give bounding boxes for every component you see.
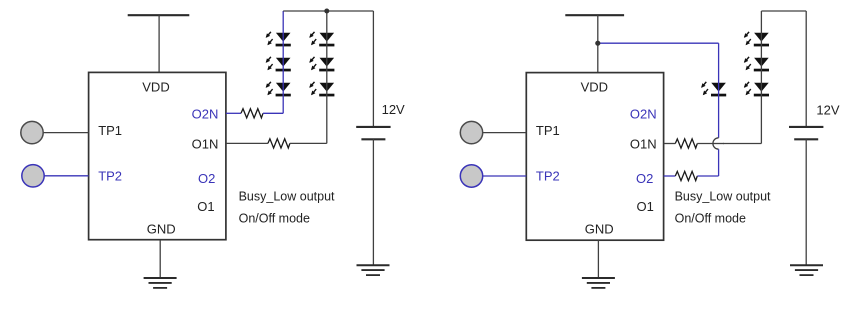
svg-text:Busy_Low output: Busy_Low output bbox=[675, 190, 771, 204]
svg-text:12V: 12V bbox=[816, 102, 839, 117]
svg-text:O2: O2 bbox=[198, 171, 215, 186]
svg-text:VDD: VDD bbox=[581, 80, 608, 95]
svg-text:GND: GND bbox=[147, 222, 176, 237]
svg-text:On/Off mode: On/Off mode bbox=[239, 211, 310, 225]
svg-text:GND: GND bbox=[585, 222, 614, 237]
svg-text:O2N: O2N bbox=[630, 106, 657, 121]
svg-text:TP2: TP2 bbox=[536, 169, 560, 184]
svg-text:12V: 12V bbox=[382, 102, 405, 117]
svg-text:TP1: TP1 bbox=[536, 123, 560, 138]
svg-text:On/Off mode: On/Off mode bbox=[675, 212, 746, 226]
svg-text:TP2: TP2 bbox=[98, 169, 122, 184]
svg-text:Busy_Low output: Busy_Low output bbox=[239, 189, 335, 203]
svg-text:O2: O2 bbox=[636, 171, 653, 186]
svg-text:VDD: VDD bbox=[142, 80, 169, 95]
svg-text:O1N: O1N bbox=[192, 136, 219, 151]
svg-text:O1: O1 bbox=[197, 199, 214, 214]
svg-text:O1: O1 bbox=[636, 199, 653, 214]
svg-text:O1N: O1N bbox=[630, 136, 657, 151]
svg-text:TP1: TP1 bbox=[98, 123, 122, 138]
svg-text:O2N: O2N bbox=[192, 106, 219, 121]
